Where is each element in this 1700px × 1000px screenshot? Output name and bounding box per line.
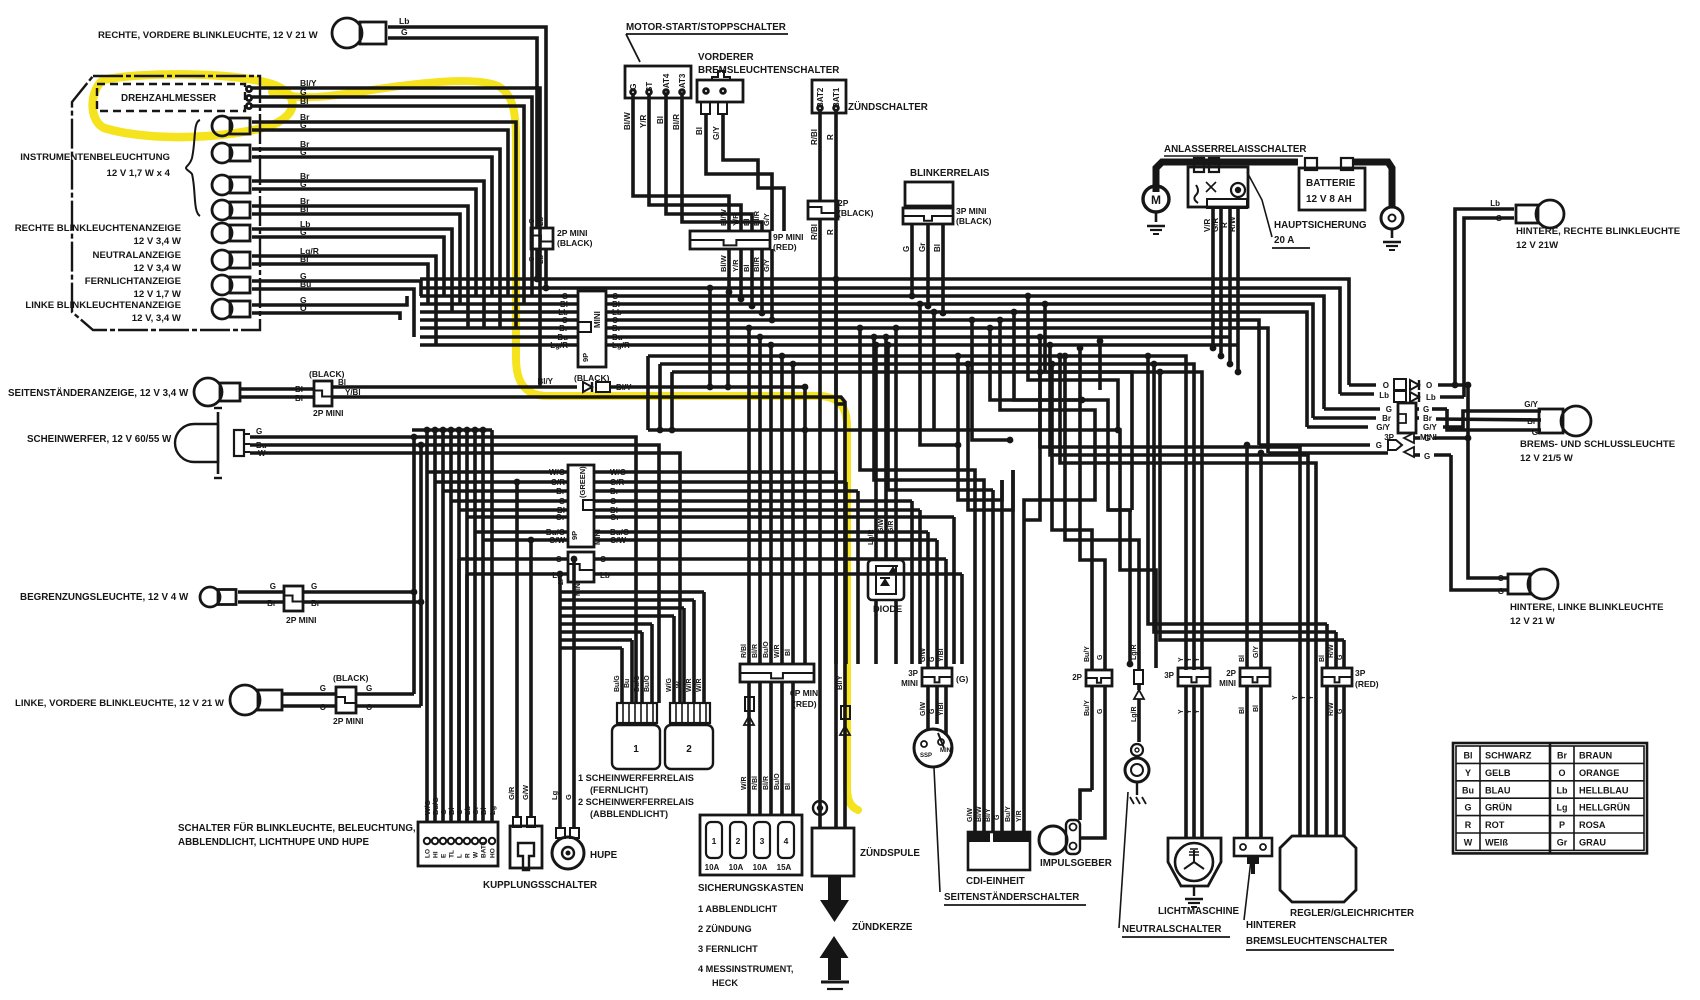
svg-text:LO: LO: [425, 849, 432, 858]
headlight relay 2: [665, 725, 713, 769]
alternator LICHTMASCHINE: [1168, 838, 1221, 886]
CDI unit box: [968, 832, 1030, 870]
neutral switch terminal: [1125, 744, 1149, 795]
svg-text:R/W: R/W: [1328, 702, 1335, 716]
svg-text:G/R: G/R: [888, 521, 895, 533]
svg-text:E: E: [441, 853, 448, 858]
svg-text:Bl/R: Bl/R: [672, 114, 681, 130]
svg-text:Y/Bl: Y/Bl: [938, 648, 945, 662]
wire bundle from instrument cluster to harness (Bl/Y G Bl Br G Br G Br G Br Bl Lb G Lg/R Bl G Bu G O): [252, 78, 540, 387]
svg-text:1: 1: [712, 836, 717, 846]
svg-text:Br: Br: [311, 599, 320, 608]
svg-text:W/G: W/G: [666, 677, 673, 692]
svg-text:Bu/O: Bu/O: [644, 675, 651, 692]
svg-text:Lg: Lg: [1557, 803, 1568, 813]
wires Y Y Y to alternator: [1186, 686, 1202, 838]
svg-text:9P MINI: 9P MINI: [773, 232, 804, 242]
svg-text:G: G: [929, 656, 936, 662]
connector 2P (BLACK) ignition: [808, 198, 874, 240]
svg-text:G: G: [1424, 452, 1430, 461]
svg-text:G: G: [1376, 441, 1382, 450]
connector 2P MINI rear brake: [1219, 646, 1270, 714]
wires to relay 1 (Bu/G Bu Bu/O Bu/O): [560, 624, 652, 703]
svg-text:(BLACK): (BLACK): [557, 238, 593, 248]
svg-text:(RED): (RED): [793, 699, 817, 709]
svg-text:ZÜNDKERZE: ZÜNDKERZE: [852, 922, 913, 933]
svg-text:10A: 10A: [705, 863, 720, 872]
svg-text:RECHTE BLINKLEUCHTENANZEIGE: RECHTE BLINKLEUCHTENANZEIGE: [15, 223, 182, 234]
svg-text:Br: Br: [556, 487, 565, 496]
svg-text:Br: Br: [1423, 414, 1432, 423]
svg-text:RECHTE, VORDERE BLINKLEUCHTE,: RECHTE, VORDERE BLINKLEUCHTE, 12 V 21 W: [98, 30, 319, 41]
wires G Lb below 2P MINI to harness: [534, 249, 550, 291]
wire labels O G rear left: [1498, 574, 1504, 596]
wire riser O left front to headlamp Bu row: [418, 442, 425, 706]
regulator rectifier REGLER/GLEICHRICHTER: [1280, 836, 1356, 902]
svg-text:VORDERER: VORDERER: [698, 52, 754, 63]
connector 2P MINI position light: [284, 586, 317, 625]
svg-text:15A: 15A: [777, 863, 792, 872]
svg-text:Bu: Bu: [300, 279, 311, 289]
svg-text:SCHWARZ: SCHWARZ: [1485, 751, 1532, 761]
svg-text:MIN: MIN: [940, 748, 951, 754]
wires Y Y Y to regulator: [1037, 334, 1316, 836]
svg-text:3P: 3P: [908, 669, 918, 678]
svg-text:Br: Br: [612, 324, 621, 333]
spark plug arrow down: [820, 876, 849, 922]
handlebar switch wire labels: [423, 797, 497, 815]
svg-text:Bl: Bl: [300, 96, 309, 106]
wire row Lb with connectors: [1340, 391, 1464, 402]
wire color legend table: [1453, 743, 1647, 853]
svg-text:Y: Y: [1194, 657, 1201, 662]
svg-text:G: G: [300, 227, 307, 237]
horn HUPE: [552, 828, 584, 869]
svg-text:12 V 8 AH: 12 V 8 AH: [1306, 194, 1352, 205]
svg-text:CDI-EINHEIT: CDI-EINHEIT: [966, 876, 1025, 887]
wire Lb rear right turn signal: [1452, 199, 1514, 388]
svg-text:Bl: Bl: [1239, 655, 1246, 662]
leader line neutral switch: [1119, 792, 1128, 928]
svg-text:HINTERE, LINKE BLINKLEUCHTE: HINTERE, LINKE BLINKLEUCHTE: [1510, 602, 1664, 613]
svg-text:Br: Br: [559, 324, 568, 333]
connector 3P MINI tail light: [1384, 403, 1437, 442]
svg-text:3 FERNLICHT: 3 FERNLICHT: [698, 944, 758, 954]
label HINTERE, LINKE BLINKLEUCHTE 12 V 21 W: [1510, 602, 1664, 627]
svg-text:G/W: G/W: [920, 648, 927, 662]
svg-text:G/W: G/W: [878, 519, 885, 533]
svg-text:G: G: [311, 582, 317, 591]
svg-text:Bl: Bl: [785, 649, 792, 656]
svg-text:INSTRUMENTENBELEUCHTUNG: INSTRUMENTENBELEUCHTUNG: [20, 152, 170, 163]
svg-text:HINTERER: HINTERER: [1246, 920, 1296, 931]
wires G O to 2P MINI left front: [283, 684, 336, 712]
headlamp symbol: [175, 408, 250, 478]
connector 2P MINI (BLACK) right front turn signal: [527, 216, 593, 264]
wires Bl Bl to 2P MINI side stand: [240, 385, 314, 403]
svg-text:Bl/Y: Bl/Y: [835, 675, 844, 690]
svg-text:G/R: G/R: [551, 478, 565, 487]
svg-text:NEUTRALSCHALTER: NEUTRALSCHALTER: [1122, 924, 1221, 935]
svg-text:2P MINI: 2P MINI: [313, 408, 344, 418]
svg-text:3P MINI: 3P MINI: [956, 206, 987, 216]
svg-text:Y/R: Y/R: [731, 213, 740, 226]
lamp rear right turn signal: [1516, 200, 1564, 228]
svg-text:HO: HO: [490, 848, 497, 858]
indicator bulb 3 in cluster: [212, 175, 250, 195]
wires Bl G/Y from front brake switch: [695, 114, 784, 231]
tachometer pins: [246, 86, 251, 108]
leader line side stand switch: [934, 768, 940, 892]
svg-text:MOTOR-START/STOPPSCHALTER: MOTOR-START/STOPPSCHALTER: [626, 22, 786, 33]
svg-text:Bu/O: Bu/O: [774, 773, 781, 790]
wire cascade verticals to handlebar switch: [412, 427, 492, 822]
svg-text:ORANGE: ORANGE: [1579, 768, 1619, 778]
lamp position light: [200, 587, 236, 607]
svg-text:1: 1: [633, 744, 639, 755]
svg-text:Br: Br: [1557, 751, 1567, 761]
wire Bl/Y diode to harness: [610, 384, 808, 391]
svg-text:LICHTMASCHINE: LICHTMASCHINE: [1158, 906, 1240, 917]
wire main harness bus (12 parallel runs): [420, 279, 1349, 670]
svg-text:G/W: G/W: [521, 784, 530, 800]
ignition coil ZUNDSPULE: [812, 828, 920, 876]
wires G O from left front connector: [356, 684, 421, 712]
svg-text:Bl: Bl: [479, 808, 488, 816]
label LINKE, VORDERE BLINKLEUCHTE, 12 V 21 W: [15, 698, 225, 709]
splitter connector G pair: [1259, 433, 1468, 461]
svg-text:W/R: W/R: [686, 678, 693, 692]
svg-text:SICHERUNGSKASTEN: SICHERUNGSKASTEN: [698, 883, 804, 894]
svg-text:(BLACK): (BLACK): [956, 216, 992, 226]
svg-text:G: G: [1097, 654, 1104, 660]
svg-text:Y/Bl: Y/Bl: [938, 702, 945, 716]
svg-text:12 V 21 W: 12 V 21 W: [1510, 616, 1556, 627]
svg-text:R/Bl: R/Bl: [810, 129, 819, 145]
svg-text:Lg/R: Lg/R: [1131, 706, 1138, 722]
svg-text:R/Bl: R/Bl: [752, 776, 759, 790]
svg-text:G/Y: G/Y: [712, 126, 721, 140]
wires O Lb through 2P MINI: [459, 559, 962, 574]
label 1 SCHEINWERFERRELAIS (FERNLICHT): [578, 773, 694, 795]
label BREMS- UND SCHLUSSLEUCHTE 12 V 21/5 W: [1520, 439, 1676, 464]
svg-text:G: G: [1097, 708, 1104, 714]
label BEGRENZUNGSLEUCHTE, 12 V 4 W: [20, 592, 189, 603]
svg-text:SSP: SSP: [920, 753, 932, 759]
label FERNLICHTANZEIGE 12 V 1,7 W: [85, 276, 182, 300]
connector 9P MINI (GREEN): [568, 465, 602, 547]
wire riser G left front to headlamp G row: [411, 434, 418, 694]
svg-text:HI: HI: [433, 851, 440, 858]
label SCHALTER FUR BLINKLEUCHTE...: [178, 823, 416, 848]
wires G Br to 2P MINI position light: [238, 582, 284, 608]
svg-text:HAUPTSICHERUNG: HAUPTSICHERUNG: [1274, 220, 1367, 231]
svg-text:O: O: [300, 303, 307, 313]
indicator bulb 6 in cluster: [212, 250, 250, 270]
svg-text:Lg/R: Lg/R: [612, 341, 630, 350]
svg-text:SCHEINWERFER, 12 V 60/55 W: SCHEINWERFER, 12 V 60/55 W: [27, 434, 172, 445]
svg-text:Bu/O: Bu/O: [634, 675, 641, 692]
svg-text:12 V 21/5 W: 12 V 21/5 W: [1520, 453, 1574, 464]
front brake light switch: [697, 71, 743, 114]
svg-text:G/Y: G/Y: [1376, 423, 1390, 432]
svg-text:G/Y: G/Y: [1423, 423, 1437, 432]
svg-text:4 MESSINSTRUMENT,: 4 MESSINSTRUMENT,: [698, 964, 793, 974]
svg-text:3P: 3P: [1164, 671, 1174, 680]
svg-text:4: 4: [784, 836, 789, 846]
wire row Br to tail connector: [1313, 414, 1541, 423]
flasher relay box: [905, 182, 953, 206]
wires G Gr Bl from flasher relay: [902, 224, 946, 316]
svg-text:G: G: [564, 794, 573, 800]
svg-text:1 SCHEINWERFERRELAIS: 1 SCHEINWERFERRELAIS: [578, 773, 694, 783]
wires right side of GREEN connector: [594, 472, 954, 540]
svg-text:G: G: [1386, 405, 1392, 414]
headlight relay 2 connector block: [670, 703, 710, 723]
svg-text:Y: Y: [1178, 657, 1185, 662]
lamp brake and tail light: [1539, 406, 1591, 436]
svg-text:Bu/Y: Bu/Y: [1084, 700, 1091, 716]
svg-text:12 V 21W: 12 V 21W: [1516, 240, 1559, 251]
wire highlighted Bl/Y tachometer circuit (yellow marker): [93, 74, 858, 810]
label CDI-EINHEIT: [966, 876, 1025, 887]
svg-text:Bl: Bl: [1253, 705, 1260, 712]
wires to diode block: [868, 325, 899, 664]
svg-text:9P: 9P: [570, 531, 579, 540]
svg-text:G: G: [270, 582, 276, 591]
svg-text:Bl: Bl: [300, 204, 309, 214]
wire maze mid horizontals: [648, 427, 1156, 668]
svg-text:BAT4: BAT4: [481, 841, 488, 858]
lamp left front turn signal: [230, 685, 282, 715]
svg-text:MINI: MINI: [593, 311, 602, 328]
connector 2P MINI below GREEN: [552, 552, 610, 596]
svg-text:G: G: [366, 684, 372, 693]
headlight relay 1: [612, 725, 660, 769]
svg-text:W/R: W/R: [741, 776, 748, 790]
svg-text:Bl/R: Bl/R: [752, 210, 761, 226]
svg-text:G/Y: G/Y: [1524, 400, 1538, 409]
ignition coil feed wires: [813, 675, 850, 815]
ground at starter motor: [1147, 226, 1165, 234]
svg-text:10A: 10A: [729, 863, 744, 872]
svg-text:G/W: G/W: [920, 702, 927, 716]
svg-text:G: G: [1496, 214, 1502, 223]
svg-text:2P MINI: 2P MINI: [333, 716, 364, 726]
ground at battery: [1383, 242, 1401, 250]
starter motor M: [1143, 186, 1169, 222]
svg-text:O: O: [1558, 768, 1565, 778]
wire G rear right turn signal: [1464, 214, 1514, 394]
svg-text:2: 2: [686, 744, 692, 755]
svg-text:G/R: G/R: [507, 786, 516, 800]
svg-text:Bl/R: Bl/R: [763, 776, 770, 790]
label 2 SCHEINWERFERRELAIS (ABBLENDLICHT): [578, 797, 694, 819]
svg-text:HUPE: HUPE: [590, 850, 618, 861]
wire Bl from side stand connector to diode: [332, 377, 577, 387]
svg-text:Bl: Bl: [1239, 707, 1246, 714]
svg-text:SEITENSTÄNDERSCHALTER: SEITENSTÄNDERSCHALTER: [944, 892, 1079, 903]
fuse link symbol on wire: [744, 697, 754, 725]
svg-text:Y: Y: [1186, 657, 1193, 662]
svg-text:WEIß: WEIß: [1485, 838, 1508, 848]
headlight relay 1 connector block: [617, 703, 657, 723]
wire maze extra drops: [917, 301, 1134, 668]
svg-text:(FERNLICHT): (FERNLICHT): [590, 785, 648, 795]
label HINTERE, RECHTE BLINKLEUCHTE 12 V 21W: [1516, 226, 1681, 251]
ignition switch ZUNDSCHALTER: [812, 80, 928, 113]
wire R/Bl from ignition switch: [810, 111, 820, 201]
wires to relay 2 (W/G W W/R W/R): [560, 592, 704, 703]
svg-text:G/W: G/W: [549, 536, 565, 545]
svg-text:LINKE BLINKLEUCHTENANZEIGE: LINKE BLINKLEUCHTENANZEIGE: [25, 300, 181, 311]
label SEITENSTANDERANZEIGE, 12 V 3,4 W: [8, 388, 189, 399]
starter relay box: [1188, 158, 1248, 208]
wire risers joining bus lower rows: [648, 356, 672, 430]
svg-text:Br: Br: [267, 599, 276, 608]
svg-text:L: L: [457, 854, 464, 858]
svg-text:G: G: [902, 246, 911, 252]
indicator bulb 7 in cluster: [212, 275, 250, 295]
svg-text:GELB: GELB: [1485, 768, 1511, 778]
svg-text:Bl: Bl: [695, 127, 704, 135]
svg-text:O: O: [1383, 381, 1389, 390]
tachometer DREHZAHLMESSER box: [97, 84, 245, 111]
svg-text:Lb: Lb: [1379, 391, 1389, 400]
wires Bl R/W G to regulator: [1145, 353, 1344, 836]
svg-text:Bu/Y: Bu/Y: [1084, 646, 1091, 662]
wires to rear brake switch: [1244, 442, 1265, 838]
svg-text:Bl: Bl: [742, 265, 751, 273]
clutch switch KUPPLUNGSSCHALTER: [510, 817, 542, 870]
label INSTRUMENTENBELEUCHTUNG 12 V 1,7 W x 4: [20, 152, 170, 179]
svg-text:3P: 3P: [1355, 668, 1366, 678]
label SEITENSTANDERSCHALTER: [944, 892, 1086, 905]
svg-text:HELLGRÜN: HELLGRÜN: [1579, 803, 1630, 813]
svg-text:Bl: Bl: [338, 378, 346, 387]
label NEUTRALANZEIGE 12 V 3,4 W: [93, 250, 182, 274]
svg-text:Bu/Y: Bu/Y: [1005, 806, 1012, 822]
connector 6P MINI (RED): [740, 641, 821, 709]
label ZUNDKERZE: [852, 922, 913, 933]
diode Bl/Y with bullet connector: [583, 382, 632, 392]
wires pulse generator: [1080, 664, 1105, 832]
svg-text:O: O: [1498, 574, 1504, 583]
svg-text:BRAUN: BRAUN: [1579, 751, 1613, 761]
svg-text:Lb: Lb: [399, 16, 409, 26]
svg-text:Bu: Bu: [624, 679, 631, 688]
fuse legend lines: [698, 904, 793, 988]
label ANLASSERRELAISSCHALTER: [1164, 144, 1306, 156]
wire maze drops from bus to bottom connectors: [857, 325, 1139, 664]
svg-text:W: W: [676, 681, 683, 688]
connector 3P MINI (G): [901, 648, 968, 716]
svg-text:W: W: [473, 851, 480, 858]
svg-text:ABBLENDLICHT, LICHTHUPE UND HU: ABBLENDLICHT, LICHTHUPE UND HUPE: [178, 837, 370, 848]
svg-text:IMPULSGEBER: IMPULSGEBER: [1040, 858, 1112, 869]
svg-text:ROSA: ROSA: [1579, 820, 1606, 830]
wires V/R G/R R R/W below starter relay: [1203, 208, 1241, 375]
svg-text:2P: 2P: [838, 198, 849, 208]
wire row G to tail connector: [1324, 405, 1541, 430]
svg-text:HINTERE, RECHTE BLINKLEUCHTE: HINTERE, RECHTE BLINKLEUCHTE: [1516, 226, 1681, 237]
label HAUPTSICHERUNG 20 A: [1272, 220, 1367, 248]
svg-text:12 V 1,7 W x 4: 12 V 1,7 W x 4: [107, 168, 171, 179]
svg-text:G: G: [300, 179, 307, 189]
engine start/stop switch box: [625, 66, 691, 98]
svg-text:R/Bl: R/Bl: [741, 644, 748, 658]
svg-text:Bl/Y: Bl/Y: [537, 377, 553, 386]
svg-text:G: G: [1424, 434, 1430, 443]
indicator bulb 8 in cluster: [212, 299, 250, 319]
svg-text:Bl: Bl: [300, 254, 309, 264]
svg-text:R/W: R/W: [1328, 644, 1335, 658]
wire Y/Bl long run to ignition coil: [332, 388, 845, 828]
svg-text:G: G: [300, 120, 307, 130]
wires into 9P MINI GREEN connector left side: [427, 468, 629, 545]
svg-text:W/G: W/G: [549, 468, 565, 477]
label REGLER/GLEICHRICHTER: [1290, 908, 1414, 919]
pulse generator IMPULSGEBER: [1039, 820, 1105, 854]
svg-text:O: O: [1426, 381, 1432, 390]
svg-text:Lg: Lg: [488, 805, 497, 815]
svg-text:(BLACK): (BLACK): [333, 673, 369, 683]
wire G from right front turn signal: [388, 27, 537, 228]
wire labels at 9P MINI BLACK connector (G Bl Lb O Br Bu Lg/R): [550, 292, 630, 350]
wire drop at x805: [803, 387, 807, 664]
lamp side stand indicator: [194, 378, 240, 406]
svg-text:Bl: Bl: [1319, 655, 1326, 662]
svg-text:2: 2: [736, 836, 741, 846]
svg-text:Bl: Bl: [933, 244, 942, 252]
svg-text:12 V 3,4 W: 12 V 3,4 W: [134, 236, 182, 247]
svg-text:(RED): (RED): [1355, 679, 1379, 689]
svg-text:Lb: Lb: [1426, 393, 1436, 402]
svg-text:Bl/W: Bl/W: [976, 806, 983, 822]
indicator bulb 5 in cluster: [212, 223, 250, 243]
svg-text:Bl/W: Bl/W: [719, 208, 728, 226]
svg-text:DREHZAHLMESSER: DREHZAHLMESSER: [121, 93, 216, 104]
svg-text:SCHALTER FÜR BLINKLEUCHTE, BEL: SCHALTER FÜR BLINKLEUCHTE, BELEUCHTUNG,: [178, 823, 416, 834]
svg-text:3: 3: [760, 836, 765, 846]
svg-text:ROT: ROT: [1485, 820, 1505, 830]
wire Lg/R with connector to neutral switch: [1131, 644, 1144, 742]
svg-text:BATTERIE: BATTERIE: [1306, 178, 1356, 189]
svg-text:MINI: MINI: [1219, 679, 1236, 688]
label RECHTE BLINKLEUCHTENANZEIGE 12 V 3,4 W: [15, 223, 182, 247]
svg-text:GRAU: GRAU: [1579, 838, 1606, 848]
label KUPPLUNGSSCHALTER: [483, 880, 597, 891]
wires G Bu W from headlamp: [250, 427, 680, 703]
svg-text:Lb: Lb: [1490, 199, 1500, 208]
indicator bulb 2 in cluster: [212, 143, 250, 163]
svg-text:Bl: Bl: [295, 385, 303, 394]
svg-text:G: G: [1532, 428, 1538, 437]
label RECHTE, VORDERE BLINKLEUCHTE, 12 V 21 W: [98, 30, 319, 41]
svg-text:Br: Br: [1527, 417, 1536, 426]
connector 9P MINI (RED): [690, 208, 804, 272]
svg-text:Y/Bl: Y/Bl: [345, 388, 361, 397]
svg-text:R: R: [826, 229, 835, 235]
svg-text:2P: 2P: [1072, 673, 1082, 682]
svg-text:W: W: [258, 449, 266, 458]
svg-text:G: G: [994, 814, 1001, 820]
svg-text:BLINKERRELAIS: BLINKERRELAIS: [910, 168, 990, 179]
svg-text:HELLBLAU: HELLBLAU: [1579, 785, 1629, 795]
label NEUTRALSCHALTER: [1122, 924, 1230, 937]
svg-text:W: W: [1464, 838, 1473, 848]
svg-text:(GREEN): (GREEN): [578, 466, 587, 498]
